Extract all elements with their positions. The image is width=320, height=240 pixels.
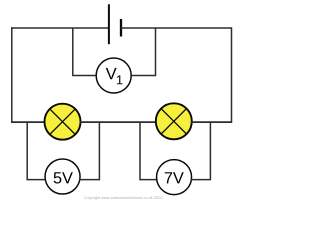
wire: V1 branch left drop xyxy=(73,28,97,76)
battery cell B1 long plate xyxy=(108,4,110,44)
wire: V1 branch right rise xyxy=(130,28,155,76)
copyright watermark xyxy=(84,196,162,200)
wire: top rail right segment xyxy=(121,27,232,29)
wire: 7V loop right xyxy=(191,122,211,180)
voltmeter 7V circle xyxy=(157,160,192,195)
wire: top rail left segment xyxy=(11,27,109,29)
voltmeter label 7V xyxy=(165,172,184,183)
wire: middle rail segment C xyxy=(191,121,232,123)
wire: middle rail segment B xyxy=(80,121,157,123)
voltmeter label 5V xyxy=(54,172,73,183)
voltmeter 5V circle xyxy=(45,159,80,194)
lamp L1 xyxy=(45,104,81,140)
battery cell B1 short plate xyxy=(120,19,122,37)
wire: right outer vertical xyxy=(231,27,233,123)
wire: 5V loop left xyxy=(27,122,46,180)
wire: left outer vertical xyxy=(11,27,13,123)
wire: 5V loop right xyxy=(79,122,100,180)
wire: middle rail segment A xyxy=(11,121,45,123)
wire: 7V loop left xyxy=(140,122,158,180)
lamp L2 xyxy=(156,103,192,139)
voltmeter U1 circle xyxy=(96,58,131,93)
voltmeter U1 label V1 xyxy=(106,68,123,84)
